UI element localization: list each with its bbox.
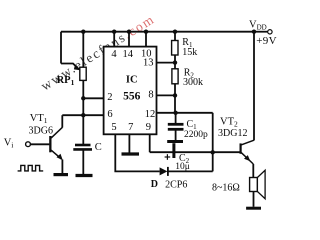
wire pin 8: [157, 94, 176, 96]
transistor VT2 collector diagonal: [241, 140, 254, 145]
potentiometer RP1 wiper arrowhead: [74, 65, 80, 70]
wire pin 9 stub: [149, 134, 151, 152]
capacitor C2 plus sign: [165, 154, 171, 160]
svg-text:6: 6: [107, 109, 112, 120]
svg-text:IC: IC: [126, 75, 138, 86]
wire VT2 collector vertical from rail: [253, 32, 255, 141]
junction dot rail Vdd: [252, 30, 256, 34]
speaker: [250, 178, 258, 192]
capacitor C plates: [73, 145, 92, 149]
svg-text:VDD: VDD: [249, 20, 267, 32]
wire IC pin 4 stub: [113, 32, 115, 47]
junction dot rail pin10: [144, 30, 148, 34]
capacitor C2 top plate: [167, 140, 183, 143]
wire Vdd terminal stub: [254, 31, 268, 33]
wire R2 bottom lead: [174, 84, 176, 113]
Vdd terminal circle: [268, 30, 272, 34]
wire IC pin 10 stub: [145, 32, 147, 47]
svg-text:300k: 300k: [183, 77, 203, 88]
wire top supply rail: [61, 31, 254, 33]
resistor R1 body: [172, 41, 178, 56]
wire VT1 collector vertical: [61, 115, 63, 127]
junction dot C1 pin12: [173, 111, 177, 115]
wire left vertical from rail: [60, 32, 62, 64]
svg-text:2200p: 2200p: [184, 130, 208, 140]
wire pin 5 stub down: [115, 134, 159, 171]
wire pin 13: [157, 62, 176, 64]
svg-text:10μ: 10μ: [175, 162, 190, 172]
junction dot R2 pin8: [173, 93, 177, 97]
ground under IC pin 7: [122, 152, 140, 155]
wire C1 top lead: [175, 113, 177, 123]
svg-text:14: 14: [122, 49, 133, 60]
capacitor C2 lower electrode bar: [172, 143, 175, 158]
svg-text:15k: 15k: [182, 47, 197, 58]
junction dot RP1 pin6: [81, 113, 85, 117]
IC U1 556 box: [104, 47, 157, 135]
svg-text:D: D: [151, 179, 158, 190]
svg-text:3DG12: 3DG12: [218, 128, 247, 139]
input square wave symbol: [18, 165, 44, 171]
input terminal Vi circle: [26, 142, 31, 147]
svg-text:9: 9: [146, 122, 151, 133]
svg-text:12: 12: [145, 109, 156, 120]
transistor VT1 base bar: [49, 136, 51, 152]
svg-text:4: 4: [111, 49, 117, 60]
junction dot rail pin14: [127, 30, 131, 34]
transistor VT1 collector diagonal: [51, 127, 62, 138]
capacitor C1 plates: [168, 124, 184, 129]
watermark www.elecfans.com: [38, 11, 157, 93]
wire pin 2: [83, 97, 103, 99]
svg-text:13: 13: [143, 58, 154, 69]
diode D: [160, 167, 168, 175]
svg-text:Vi: Vi: [4, 137, 14, 149]
svg-text:VT2: VT2: [220, 117, 238, 129]
wire VT1 emitter lead: [61, 160, 63, 174]
ground under capacitor C: [76, 174, 93, 177]
svg-text:5: 5: [111, 122, 116, 133]
wire pin 12: [157, 112, 213, 114]
svg-text:VT1: VT1: [30, 113, 48, 125]
wire right node vertical pin12 to diode: [212, 113, 214, 172]
wire speaker to ground: [253, 192, 255, 207]
junction dot RP1 pin2: [81, 96, 85, 100]
wire VT1 base lead: [30, 143, 49, 145]
junction dot rail R1: [173, 30, 177, 34]
transistor VT1 emitter diagonal with arrow: [51, 150, 61, 159]
svg-text:556: 556: [123, 91, 141, 103]
ground under speaker: [246, 207, 261, 210]
wire C1 to C2 lead: [175, 131, 177, 141]
resistor R2 body: [172, 69, 178, 84]
ground under VT1 emitter: [54, 173, 69, 176]
svg-text:8: 8: [148, 90, 153, 101]
svg-text:8~16Ω: 8~16Ω: [212, 183, 240, 194]
wire VT2 emitter lead to speaker: [252, 164, 254, 178]
svg-text:+9V: +9V: [256, 35, 277, 47]
wire RP1 bottom lead down to capacitor C: [82, 80, 84, 144]
wire diode cathode to node: [168, 170, 213, 172]
wire IC pin 14 stub: [128, 32, 130, 47]
wire signal row to VT2 base: [150, 151, 240, 153]
transistor VT2 base bar: [240, 143, 242, 153]
wire RP1 top lead: [82, 32, 84, 67]
junction dot rail pin4: [112, 30, 116, 34]
svg-text:7: 7: [128, 122, 133, 133]
wire R1-R2 junction with pin 13: [174, 55, 176, 69]
junction dot rail RP1: [81, 30, 85, 34]
svg-text:2CP6: 2CP6: [165, 180, 187, 191]
wire R1 top lead: [174, 32, 176, 41]
wire pin 6 to VT1 collector: [62, 114, 103, 116]
svg-text:3DG6: 3DG6: [29, 126, 53, 137]
svg-text:2: 2: [107, 92, 112, 103]
wire pin 7 stub: [128, 134, 130, 152]
junction dot node signal row: [211, 150, 215, 154]
potentiometer RP1 body: [80, 67, 86, 80]
transistor VT2 emitter diagonal with arrow: [241, 153, 253, 164]
svg-text:C: C: [95, 142, 102, 153]
junction dot R1 R2 pin13: [173, 60, 177, 64]
wire RP1 wiper horizontal: [61, 64, 79, 70]
wire capacitor C bottom lead: [82, 150, 84, 174]
